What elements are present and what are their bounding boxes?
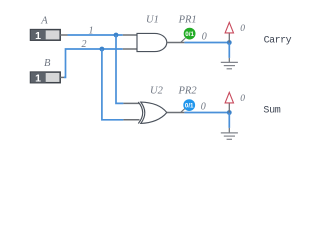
- junction carry: [227, 40, 232, 45]
- input B switch: [31, 72, 61, 84]
- led pin (carry): [228, 33, 230, 43]
- svg-text:U2: U2: [150, 86, 164, 97]
- svg-text:0: 0: [240, 24, 245, 34]
- junction on wire 2: [100, 47, 105, 52]
- ground (carry): [221, 58, 238, 69]
- XOR gate U2 output pin: [167, 112, 185, 114]
- svg-text:1: 1: [35, 30, 41, 42]
- svg-text:2: 2: [82, 39, 87, 50]
- XOR gate U2 input pin 1: [123, 102, 139, 104]
- svg-text:B: B: [44, 58, 51, 69]
- wire to ground (sum): [228, 113, 230, 128]
- ground (sum): [221, 128, 238, 139]
- junction sum: [227, 110, 232, 115]
- pin stub input B: [60, 76, 64, 78]
- input A switch: [31, 30, 61, 42]
- svg-text:A: A: [40, 16, 48, 27]
- wire 2 (B to AND input 2): [64, 49, 123, 77]
- svg-text:PR1: PR1: [178, 14, 197, 25]
- AND gate U1 input pin 1: [123, 34, 138, 36]
- svg-text:0/1: 0/1: [185, 31, 194, 38]
- wire 2 branch to XOR input 2: [102, 49, 124, 120]
- led indicator (carry): [225, 22, 233, 33]
- junction on wire 1: [114, 33, 119, 38]
- wire sum (XOR output to junction): [184, 112, 229, 114]
- svg-text:U1: U1: [146, 15, 159, 26]
- svg-text:Sum: Sum: [263, 106, 280, 117]
- wire carry (AND output to junction): [184, 42, 229, 44]
- and-gate U1: [137, 33, 167, 51]
- svg-text:PR2: PR2: [178, 86, 198, 97]
- probe PR1: [181, 28, 196, 43]
- svg-text:0: 0: [201, 101, 206, 112]
- svg-text:1: 1: [89, 25, 94, 36]
- AND gate U1 input pin 2: [123, 48, 138, 50]
- xor-gate U2: [138, 102, 167, 124]
- wire 1 (A to AND input 1): [68, 34, 123, 36]
- probe PR2: [181, 99, 195, 112]
- wire to ground (carry): [228, 43, 230, 58]
- XOR gate U2 input pin 2: [123, 119, 139, 121]
- svg-text:0: 0: [202, 31, 207, 42]
- svg-text:0/1: 0/1: [185, 102, 194, 109]
- led pin (sum): [228, 103, 230, 113]
- wire 1 branch to XOR input 1: [116, 35, 123, 103]
- pin stub input A: [60, 34, 67, 36]
- svg-text:1: 1: [35, 72, 41, 84]
- svg-text:Carry: Carry: [264, 36, 292, 47]
- AND gate U1 output pin: [167, 42, 185, 44]
- led indicator (sum): [225, 92, 233, 103]
- svg-text:0: 0: [240, 94, 245, 104]
